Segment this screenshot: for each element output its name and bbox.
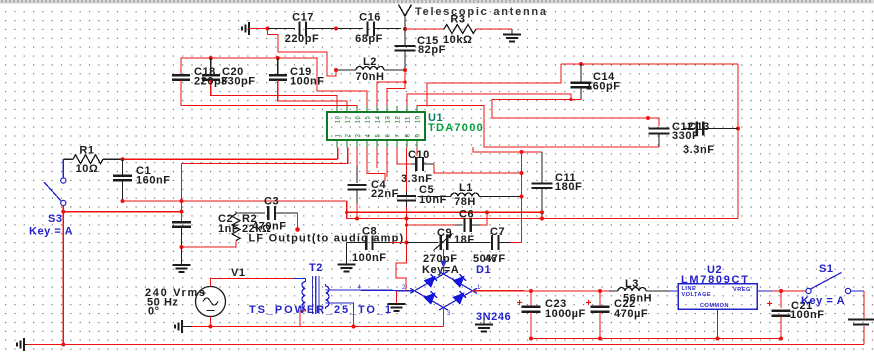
wire (863, 291, 865, 318)
svg-text:330F: 330F (672, 130, 699, 142)
svg-text:1000µF: 1000µF (545, 308, 586, 320)
svg-text:12: 12 (395, 116, 402, 124)
wire (182, 148, 348, 164)
svg-text:180F: 180F (555, 181, 582, 193)
node J21 (520, 171, 524, 175)
capacitor C13 (696, 122, 698, 136)
svg-text:18F: 18F (454, 234, 475, 246)
node J36 (716, 337, 720, 341)
wire (62, 212, 64, 345)
node J19 (180, 210, 184, 214)
svg-text:C3: C3 (264, 196, 279, 208)
wire (181, 164, 183, 222)
capacitor C4 (348, 184, 367, 186)
capacitor C20 (202, 74, 220, 76)
svg-text:T2: T2 (309, 262, 323, 274)
wire (278, 80, 347, 107)
wire (683, 128, 694, 130)
wire (347, 242, 367, 244)
capacitor C12 (649, 127, 670, 129)
ground (23, 338, 25, 351)
wire (407, 94, 571, 107)
wire (471, 224, 480, 226)
node J6 (334, 68, 338, 72)
svg-text:82pF: 82pF (418, 44, 446, 56)
node J39 (61, 343, 65, 347)
wire (599, 312, 601, 339)
svg-text:TS_POWER_25_TO_1: TS_POWER_25_TO_1 (249, 304, 393, 316)
capacitor C3 (267, 206, 269, 220)
capacitor C9 (440, 235, 442, 250)
wire (249, 28, 268, 30)
wire (346, 243, 348, 265)
wire (235, 212, 237, 215)
switch S1 (806, 288, 811, 293)
node J34 (529, 337, 533, 341)
ground (173, 264, 191, 266)
wire (181, 80, 357, 107)
svg-text:C9: C9 (437, 227, 452, 239)
svg-text:8: 8 (405, 134, 412, 138)
wire (476, 28, 512, 30)
svg-text:68pF: 68pF (355, 33, 383, 45)
node J28 (405, 223, 408, 226)
wire (658, 134, 660, 148)
wire (326, 289, 360, 291)
variable arrow C9 (434, 235, 452, 251)
wire (182, 326, 192, 328)
capacitor C14 (571, 82, 592, 84)
wire (646, 290, 669, 292)
svg-text:220pF: 220pF (285, 33, 320, 45)
wire (337, 148, 339, 160)
node J22 (520, 195, 524, 199)
node J23 (540, 210, 544, 214)
capacitor C6 (463, 218, 465, 232)
wire (210, 58, 212, 75)
wire (181, 227, 183, 247)
wire (541, 152, 543, 183)
node J8 (403, 80, 406, 83)
capacitor C1 (113, 175, 132, 177)
wire (336, 69, 356, 71)
op-amp U1 TDA7000 body (327, 112, 425, 140)
resistor R3 (444, 25, 476, 34)
node LF output (295, 227, 300, 232)
node J12 (736, 127, 740, 131)
wire (648, 146, 659, 148)
wire (609, 290, 618, 292)
wire (297, 213, 299, 228)
ground (338, 264, 356, 266)
svg-text:Key=A: Key=A (422, 264, 459, 276)
ground (503, 34, 521, 36)
wire (704, 128, 739, 130)
svg-text:+: + (586, 298, 592, 309)
node J29 (405, 241, 409, 245)
wire (511, 29, 513, 34)
svg-text:S1: S1 (819, 263, 834, 275)
ground (181, 320, 183, 333)
wire (455, 224, 462, 226)
svg-text:C8: C8 (362, 226, 377, 238)
wire (717, 309, 719, 315)
wire (780, 291, 782, 308)
wire (396, 243, 407, 291)
svg-text:100nF: 100nF (290, 76, 325, 88)
node J33 (598, 289, 602, 293)
svg-text:0°: 0° (148, 306, 160, 318)
wire (580, 64, 582, 82)
wire (390, 242, 407, 244)
node J25 (485, 210, 489, 214)
wire (416, 148, 418, 157)
svg-text:3.3nF: 3.3nF (683, 144, 714, 156)
wire (346, 201, 348, 219)
wire (24, 344, 27, 346)
U1 pin stubs (336, 106, 338, 112)
wire (772, 290, 806, 292)
node J13 (520, 150, 524, 154)
wire (275, 212, 298, 214)
svg-text:3: 3 (447, 311, 451, 317)
wire (181, 58, 367, 107)
svg-text:160nF: 160nF (136, 175, 171, 187)
svg-text:L1: L1 (459, 182, 473, 194)
svg-text:L2: L2 (363, 56, 377, 68)
svg-text:3N246: 3N246 (476, 311, 511, 323)
wire (387, 82, 405, 107)
wire (648, 118, 659, 126)
node J30 (209, 325, 213, 329)
capacitor C2 (172, 221, 191, 223)
svg-text:R3: R3 (450, 14, 465, 26)
svg-text:7: 7 (395, 134, 402, 138)
capacitor C15 (395, 45, 416, 47)
node J11 (646, 116, 650, 120)
svg-text:VREG: VREG (733, 287, 751, 293)
wire (367, 148, 385, 182)
wire (737, 64, 739, 219)
svg-text:5: 5 (375, 134, 382, 138)
svg-text:470µF: 470µF (614, 308, 648, 320)
capacitor C21 (772, 310, 791, 312)
wire (236, 212, 265, 214)
svg-text:10: 10 (415, 116, 422, 124)
node J24 (540, 217, 544, 221)
wire (473, 290, 532, 292)
svg-text:VOLTAGE: VOLTAGE (682, 292, 712, 298)
capacitor C22 (591, 306, 610, 308)
svg-text:LM7809CT: LM7809CT (681, 274, 750, 286)
svg-text:COMMON: COMMON (700, 303, 729, 309)
ground (475, 324, 493, 326)
wire (326, 303, 354, 309)
wire (396, 291, 398, 304)
wire (531, 338, 781, 340)
svg-text:11: 11 (405, 116, 412, 124)
wire (356, 190, 358, 203)
wire (530, 312, 532, 339)
svg-text:L3: L3 (625, 278, 639, 290)
node J9 (579, 62, 583, 66)
wire (277, 58, 279, 75)
svg-text:14: 14 (375, 116, 382, 124)
svg-text:TDA7000: TDA7000 (428, 122, 484, 134)
node J3 (403, 27, 407, 31)
wire (404, 29, 406, 46)
wire (406, 201, 408, 207)
source V1 (196, 287, 226, 317)
wire (406, 148, 408, 192)
wire (62, 206, 64, 212)
wire (561, 63, 738, 65)
resistor R1 (73, 155, 103, 164)
antenna (399, 5, 412, 17)
node J5 (276, 56, 280, 60)
wire (359, 289, 415, 292)
wire (541, 188, 543, 219)
svg-text:C17: C17 (292, 12, 314, 24)
node J32 (529, 289, 533, 293)
battery ground (848, 319, 874, 321)
top border strip (0, 0, 874, 4)
wire (717, 315, 719, 339)
node J27 (405, 217, 409, 221)
wire (780, 316, 782, 339)
wire (122, 159, 124, 175)
svg-text:2: 2 (345, 134, 352, 138)
svg-text:Key = A: Key = A (801, 295, 845, 307)
wire (27, 344, 864, 346)
wire (418, 196, 452, 198)
svg-text:17: 17 (345, 116, 352, 124)
wire (268, 28, 296, 30)
U1 pin numbers bottom (335, 134, 422, 138)
inductor L2 (356, 67, 384, 71)
svg-text:9: 9 (415, 134, 422, 138)
svg-text:15: 15 (365, 116, 372, 124)
wire (407, 242, 439, 244)
wire (406, 191, 408, 196)
svg-text:70nH: 70nH (355, 71, 384, 83)
wire (377, 70, 405, 107)
wire (417, 106, 648, 148)
wire (531, 290, 609, 292)
svg-text:4: 4 (365, 134, 372, 138)
wire (404, 51, 406, 71)
wire (103, 158, 123, 160)
capacitor C18 (172, 74, 190, 76)
svg-text:C10: C10 (408, 149, 430, 161)
svg-text:10Ω: 10Ω (76, 163, 99, 175)
node J1 (266, 27, 270, 31)
svg-text:+: + (517, 298, 523, 309)
wire (356, 148, 358, 167)
wire (510, 152, 522, 243)
svg-text:100nF: 100nF (790, 309, 825, 321)
wire (356, 166, 358, 183)
wire (123, 200, 347, 202)
svg-text:1: 1 (335, 134, 342, 138)
wire (863, 326, 865, 345)
ground (248, 22, 250, 35)
transformer T2 secondary (326, 284, 330, 309)
wire (384, 69, 405, 71)
inductor L1 (451, 193, 479, 196)
wire (63, 211, 181, 213)
regulator U2 body (678, 284, 757, 310)
ground (388, 303, 406, 305)
node J31 (352, 325, 356, 329)
wire (374, 28, 401, 30)
svg-text:6: 6 (385, 134, 392, 138)
capacitor C23 (522, 306, 541, 308)
capacitor C11 (532, 182, 553, 184)
svg-text:C6: C6 (459, 209, 474, 221)
node J16 (180, 199, 184, 203)
svg-text:C7: C7 (490, 226, 505, 238)
node J15 (121, 199, 125, 203)
wire (530, 291, 532, 306)
wire (411, 163, 416, 165)
node J14 (121, 157, 125, 161)
svg-text:D1: D1 (476, 264, 491, 276)
wire (499, 242, 511, 244)
wire (210, 317, 212, 327)
svg-text:470nF: 470nF (252, 221, 287, 233)
svg-text:16: 16 (355, 116, 362, 124)
svg-text:13: 13 (385, 116, 392, 124)
svg-text:1nF: 1nF (218, 223, 239, 235)
svg-text:100nF: 100nF (352, 252, 387, 264)
svg-text:3: 3 (355, 134, 362, 138)
wire (757, 290, 772, 292)
inductor L3 (618, 288, 646, 292)
node J17 (345, 211, 348, 214)
node J7 (403, 68, 407, 72)
wire (480, 212, 487, 225)
node J10 (569, 98, 572, 101)
diode bridge D1 (410, 271, 448, 293)
wire (447, 242, 490, 244)
wire (599, 291, 601, 306)
svg-text:Telescopic antenna: Telescopic antenna (415, 6, 548, 18)
node J38 (779, 337, 783, 341)
svg-text:330pF: 330pF (221, 76, 256, 88)
wire (182, 241, 237, 248)
svg-text:C16: C16 (359, 12, 381, 24)
capacitor C10 (415, 157, 417, 171)
svg-text:V1: V1 (231, 267, 246, 279)
node J4 (209, 56, 213, 60)
wire (492, 100, 648, 119)
wire (427, 64, 561, 107)
capacitor C7 (491, 235, 493, 250)
wire (122, 181, 124, 202)
wire (306, 28, 363, 30)
wire (434, 164, 522, 173)
wire (373, 242, 390, 244)
svg-text:160pF: 160pF (586, 81, 621, 93)
node J35 (598, 337, 602, 341)
wire (294, 278, 306, 280)
node J37 (779, 289, 783, 293)
wire (347, 211, 542, 213)
wire (347, 218, 738, 220)
wire (406, 225, 408, 243)
wire (443, 249, 445, 274)
wire (669, 290, 678, 292)
svg-text:S3: S3 (48, 213, 63, 225)
wire (423, 163, 434, 165)
svg-text:22nF: 22nF (371, 188, 399, 200)
wire (443, 308, 445, 327)
wire (62, 159, 64, 178)
transformer T2 core (312, 276, 314, 314)
svg-text:+: + (767, 299, 773, 310)
wire (356, 203, 358, 219)
node J2 (334, 27, 338, 31)
node J20 (180, 245, 184, 249)
wire (211, 80, 337, 107)
wire (473, 147, 542, 152)
wire (386, 148, 388, 178)
wire (63, 158, 73, 160)
capacitor C19 (269, 74, 287, 76)
wire (406, 207, 408, 219)
capacitor C17 (298, 21, 300, 36)
node J26 (355, 217, 359, 221)
wire (123, 158, 338, 160)
wire (405, 28, 444, 30)
svg-text:78H: 78H (454, 196, 476, 208)
switch S3 (61, 178, 66, 183)
wire (851, 290, 864, 292)
wire (376, 148, 378, 169)
wire (181, 247, 183, 265)
wire (268, 29, 337, 77)
capacitor C5 (397, 195, 416, 197)
wire (353, 309, 355, 327)
wire (580, 87, 582, 99)
U1 pin numbers top (335, 116, 422, 124)
node J18 (61, 210, 65, 214)
svg-text:10kΩ: 10kΩ (443, 34, 472, 46)
transformer T2 primary (302, 279, 305, 312)
capacitor C8 (365, 235, 367, 250)
wire (397, 148, 411, 165)
svg-text:Key = A: Key = A (29, 226, 73, 238)
svg-text:18: 18 (335, 116, 342, 124)
wire (211, 279, 295, 287)
wire (407, 219, 456, 226)
wire (479, 196, 522, 198)
svg-text:R1: R1 (79, 145, 94, 157)
wire (192, 326, 444, 328)
capacitor C16 (366, 21, 368, 36)
wire (300, 311, 306, 327)
key arrow (440, 261, 447, 269)
resistor R2 (232, 214, 240, 241)
